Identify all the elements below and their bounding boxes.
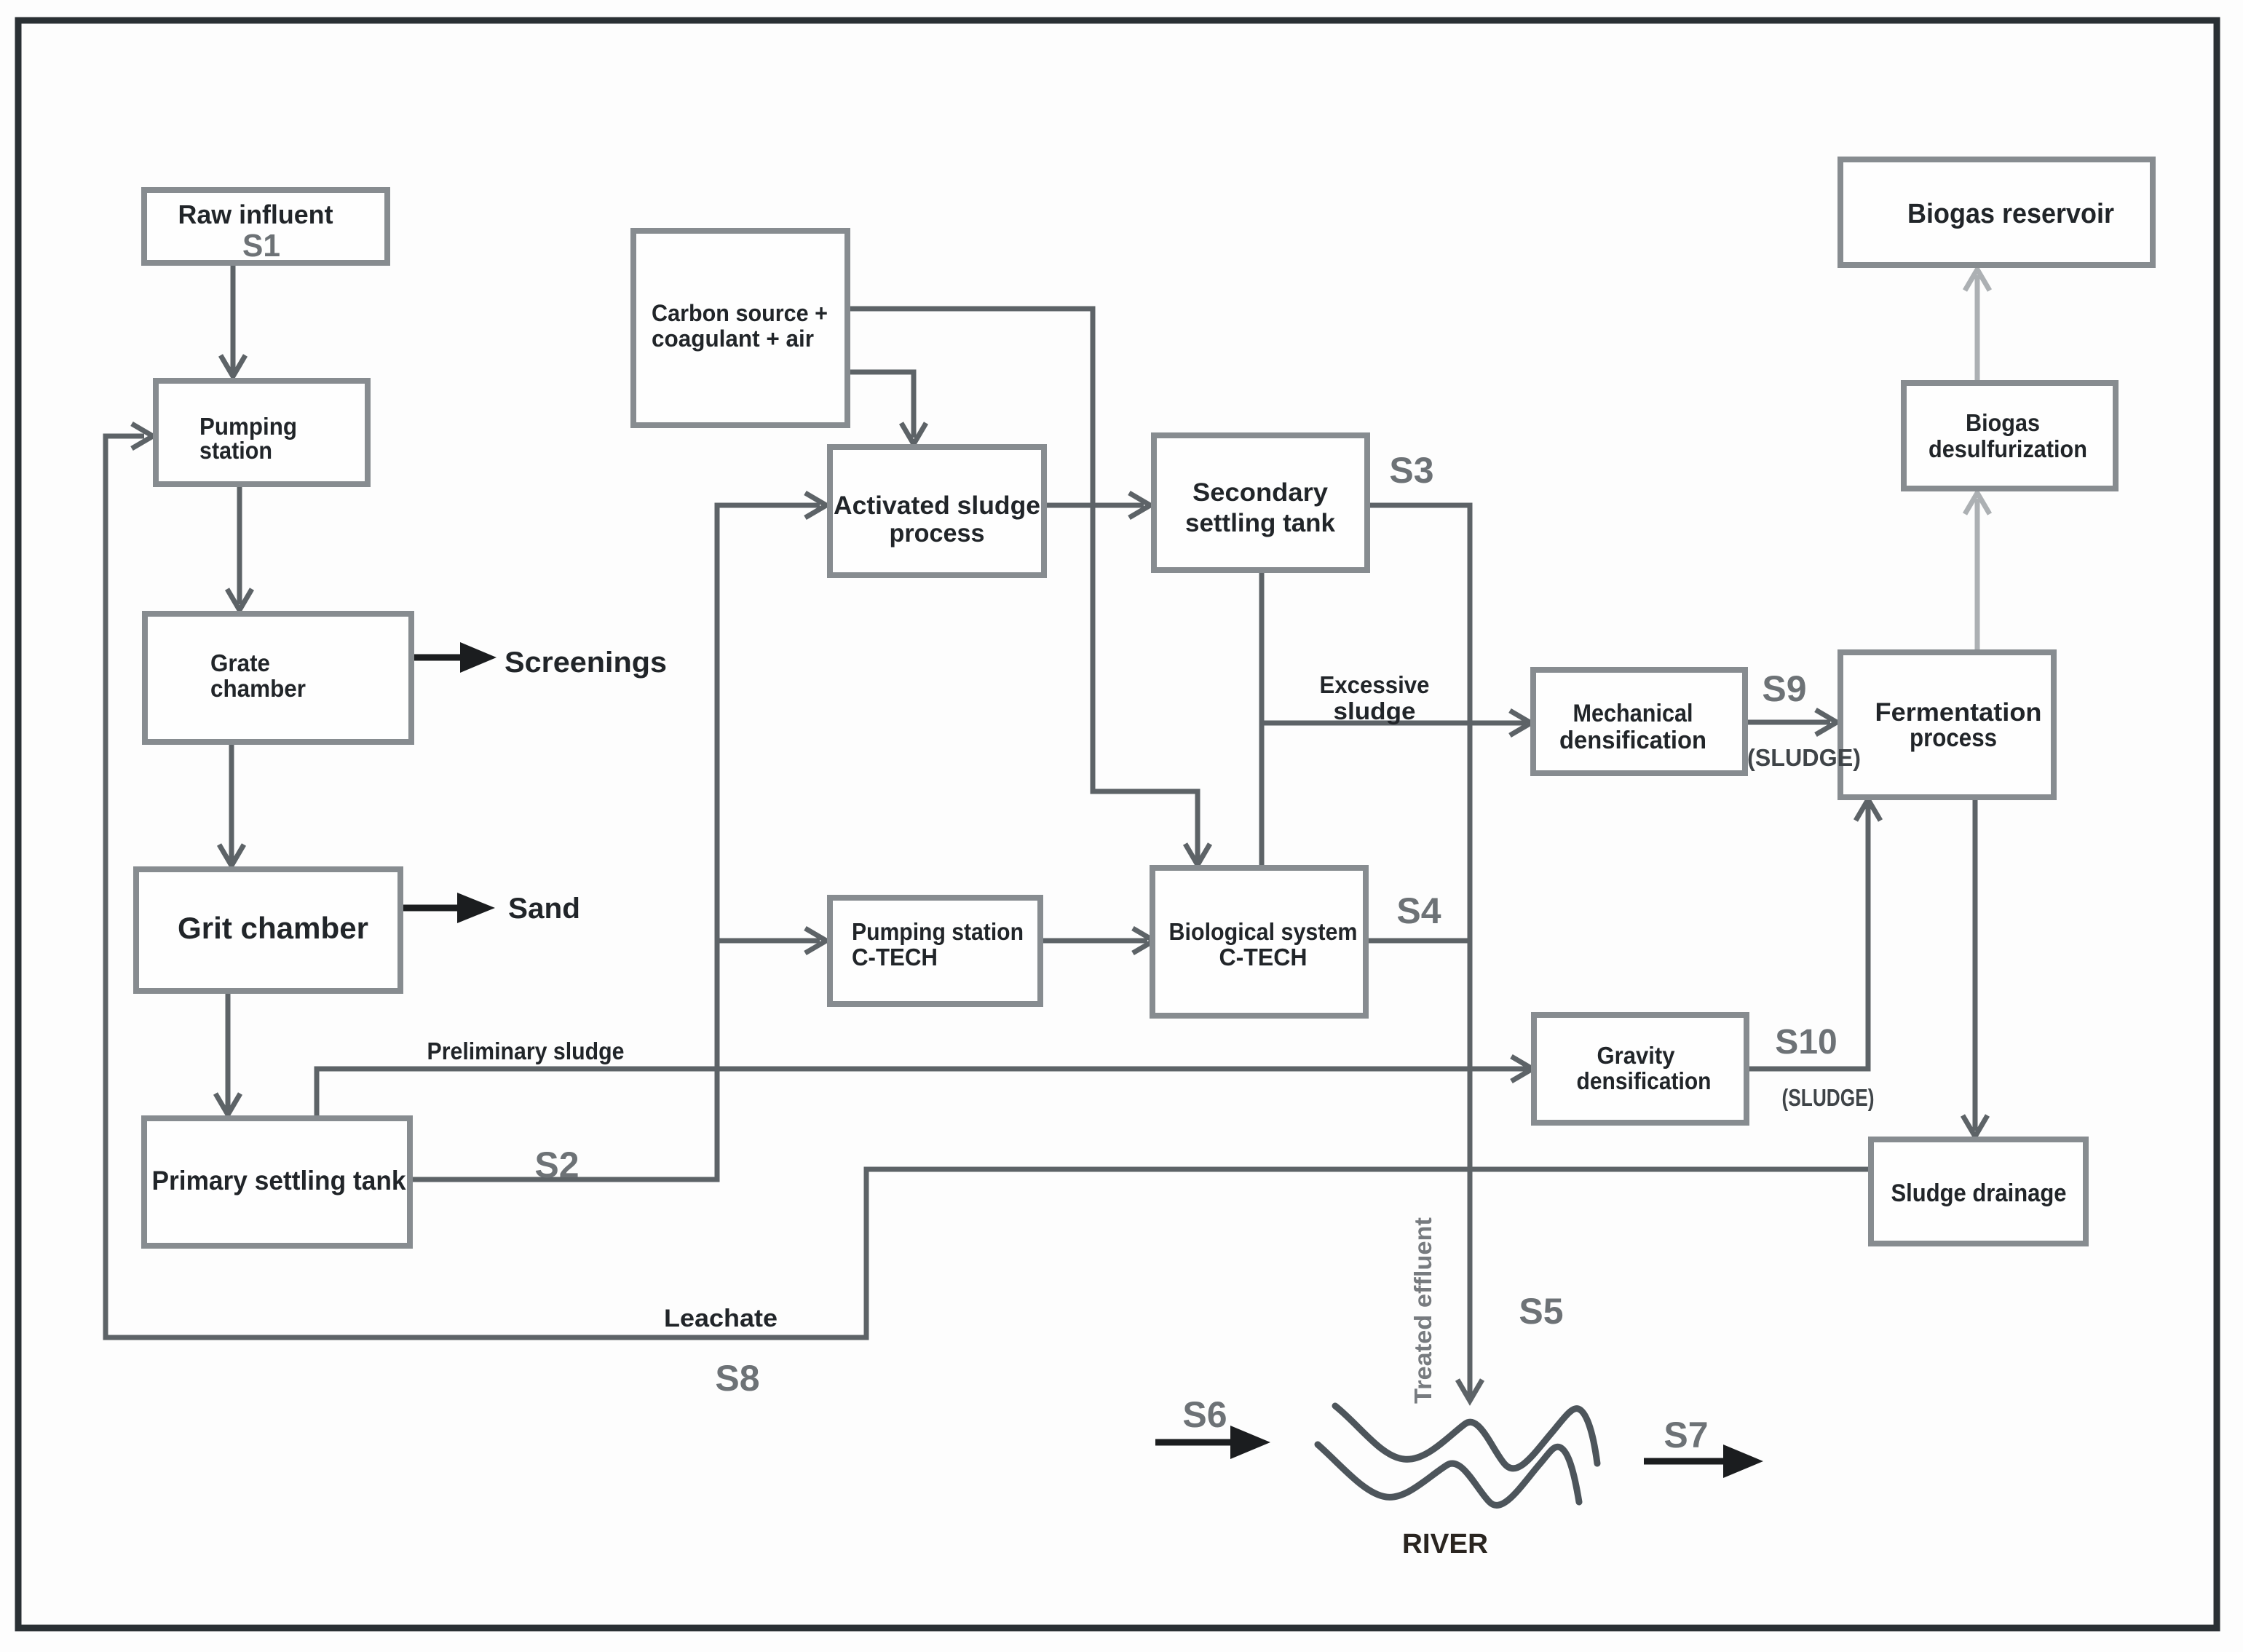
wire: carbon source upper line to Biological system bbox=[847, 309, 1198, 860]
wire: Pumping station to Grate chamber bbox=[237, 477, 242, 604]
arrow head: into Biological system top bbox=[1185, 844, 1210, 865]
svg-text:Excessive: Excessive bbox=[1320, 671, 1430, 698]
box: Biogas desulfurization bbox=[1904, 383, 2116, 489]
box: Raw influent S1 bbox=[144, 190, 387, 263]
wire: S2 branch to Pumping station C-TECH bbox=[717, 938, 820, 944]
svg-text:station: station bbox=[199, 437, 272, 464]
svg-text:Raw influent: Raw influent bbox=[178, 199, 333, 229]
svg-text:settling tank: settling tank bbox=[1185, 509, 1336, 537]
svg-text:Primary settling tank: Primary settling tank bbox=[152, 1166, 406, 1195]
svg-text:RIVER: RIVER bbox=[1402, 1529, 1488, 1560]
svg-text:coagulant + air: coagulant + air bbox=[652, 325, 814, 352]
wire: Pumping station C-TECH to Biological system bbox=[1040, 938, 1147, 944]
arrow head: into Gravity densification bbox=[1511, 1056, 1532, 1081]
svg-text:Grit chamber: Grit chamber bbox=[178, 911, 368, 945]
arrow head: into Biogas desulfurization bottom bbox=[1965, 493, 1990, 514]
svg-text:Carbon source +: Carbon source + bbox=[652, 300, 828, 326]
box: Carbon source + coagulant + air bbox=[633, 231, 847, 425]
arrow head: into Secondary settling tank bbox=[1129, 493, 1150, 518]
svg-text:S10: S10 bbox=[1775, 1023, 1837, 1062]
black arrow: S6 into river bbox=[1155, 1439, 1234, 1446]
svg-text:S8: S8 bbox=[715, 1358, 759, 1399]
arrow head: S10 into Fermentation process bottom bbox=[1856, 799, 1880, 821]
svg-text:process: process bbox=[890, 519, 985, 548]
box: Mechanical densification bbox=[1533, 670, 1745, 773]
wire: S3/S5 from Secondary settling tank down to river bbox=[1367, 505, 1470, 1396]
wire: Fermentation process down to Sludge drainage bbox=[1973, 797, 1978, 1131]
wire: Biogas desulfurization up to Biogas reservoir (light) bbox=[1975, 275, 1980, 383]
wire: preliminary sludge from Primary settling tank to Gravity densification bbox=[317, 1069, 1527, 1118]
arrow head: into Primary settling tank top bbox=[215, 1094, 240, 1115]
arrow head: into Pumping station top bbox=[221, 355, 245, 376]
svg-text:Pumping: Pumping bbox=[199, 413, 297, 440]
arrow head: into Pumping station C-TECH bbox=[805, 928, 826, 953]
svg-text:sludge: sludge bbox=[1334, 697, 1416, 724]
box: Fermentation process bbox=[1840, 652, 2054, 797]
svg-text:S6: S6 bbox=[1182, 1394, 1227, 1435]
svg-text:Sludge drainage: Sludge drainage bbox=[1891, 1179, 2067, 1207]
arrow head: into Biological system bbox=[1133, 928, 1154, 953]
box: Grit chamber bbox=[136, 869, 400, 991]
svg-text:Fermentation: Fermentation bbox=[1875, 698, 2042, 727]
box: Gravity densification bbox=[1534, 1015, 1746, 1123]
svg-text:Screenings: Screenings bbox=[505, 647, 667, 679]
svg-text:S4: S4 bbox=[1396, 890, 1441, 931]
svg-text:Biogas reservoir: Biogas reservoir bbox=[1907, 199, 2114, 229]
black arrow: Sand bbox=[400, 905, 459, 912]
arrow head: into Mechanical densification bbox=[1510, 711, 1531, 735]
svg-text:densification: densification bbox=[1577, 1067, 1712, 1094]
black arrow: S7 out of river bbox=[1644, 1458, 1727, 1465]
svg-text:S3: S3 bbox=[1389, 450, 1433, 491]
wire: S10 from Gravity densification to Fermentation process bbox=[1746, 805, 1868, 1069]
wire: S2 from Primary settling tank up to Activated sludge process bbox=[410, 505, 820, 1179]
arrow head: into Grit chamber top bbox=[219, 845, 244, 866]
arrow head: S9 into Fermentation process bbox=[1816, 710, 1837, 735]
wire: excessive sludge branch to Mechanical densification bbox=[1262, 721, 1526, 726]
arrow head: leachate into Pumping station bbox=[132, 424, 153, 448]
arrow head: S5 into river bbox=[1457, 1380, 1482, 1401]
svg-text:Grate: Grate bbox=[210, 649, 270, 676]
svg-text:Mechanical: Mechanical bbox=[1573, 700, 1693, 727]
arrow head: S2 into Activated sludge process bbox=[805, 493, 826, 518]
svg-text:process: process bbox=[1910, 724, 1997, 752]
box: Pumping station bbox=[156, 381, 368, 484]
svg-text:Secondary: Secondary bbox=[1192, 478, 1329, 507]
svg-text:desulfurization: desulfurization bbox=[1928, 435, 2087, 462]
box: Primary settling tank bbox=[144, 1118, 410, 1246]
box: Biogas reservoir bbox=[1840, 159, 2153, 265]
wire: S4 from Biological system to S5 line bbox=[1366, 938, 1470, 944]
svg-text:Biogas: Biogas bbox=[1966, 409, 2040, 436]
svg-text:chamber: chamber bbox=[210, 675, 306, 702]
svg-text:Leachate: Leachate bbox=[664, 1305, 778, 1332]
svg-text:Gravity: Gravity bbox=[1597, 1042, 1676, 1069]
box: Grate chamber bbox=[145, 614, 411, 742]
box: Biological system C-TECH bbox=[1152, 868, 1366, 1016]
svg-text:Sand: Sand bbox=[508, 893, 580, 925]
svg-text:C-TECH: C-TECH bbox=[852, 944, 938, 971]
arrow head: into Grate chamber top bbox=[227, 589, 252, 610]
svg-text:Pumping station: Pumping station bbox=[852, 918, 1024, 945]
svg-text:S1: S1 bbox=[242, 228, 280, 264]
box: Sludge drainage bbox=[1871, 1139, 2086, 1244]
wire: Fermentation process up to Biogas desulfurization (light) bbox=[1975, 499, 1980, 652]
river squiggle lower bbox=[1318, 1444, 1579, 1505]
black arrow: Screenings bbox=[411, 655, 466, 661]
river squiggle upper bbox=[1335, 1406, 1597, 1469]
wire: Raw influent to Pumping station bbox=[231, 263, 236, 371]
svg-text:Preliminary sludge: Preliminary sludge bbox=[427, 1038, 625, 1064]
box: Pumping station C-TECH bbox=[830, 898, 1040, 1004]
wire: Grate chamber to Grit chamber bbox=[229, 742, 234, 861]
wire: Grit chamber to Primary settling tank bbox=[226, 991, 231, 1110]
svg-text:C-TECH: C-TECH bbox=[1219, 944, 1308, 971]
box: Activated sludge process bbox=[830, 447, 1044, 575]
arrow head: into Activated sludge process top bbox=[901, 423, 926, 444]
arrow head: into Sludge drainage top bbox=[1963, 1115, 1987, 1137]
wire: carbon source lower line to Activated sludge process bbox=[847, 372, 914, 438]
svg-text:Activated sludge: Activated sludge bbox=[834, 491, 1040, 520]
box: Secondary settling tank bbox=[1154, 435, 1367, 570]
arrow head: into Biogas reservoir bottom bbox=[1965, 269, 1990, 291]
svg-text:(SLUDGE): (SLUDGE) bbox=[1747, 744, 1861, 771]
svg-text:S7: S7 bbox=[1664, 1415, 1708, 1455]
svg-text:Treated effluent: Treated effluent bbox=[1409, 1217, 1436, 1404]
wire: Activated sludge process to Secondary settling tank bbox=[1044, 503, 1144, 508]
svg-text:densification: densification bbox=[1559, 727, 1706, 754]
svg-text:S2: S2 bbox=[534, 1145, 579, 1185]
wire: S9 from Mechanical densification to Fermentation process bbox=[1746, 720, 1830, 725]
wire: leachate loop from Sludge drainage to Pumping station bbox=[106, 436, 1871, 1337]
svg-text:Biological system: Biological system bbox=[1169, 918, 1358, 945]
svg-text:(SLUDGE): (SLUDGE) bbox=[1782, 1084, 1875, 1111]
svg-text:S5: S5 bbox=[1519, 1291, 1563, 1332]
wire: Secondary settling tank down to Biological system bbox=[1259, 570, 1265, 868]
svg-text:S9: S9 bbox=[1762, 668, 1806, 709]
